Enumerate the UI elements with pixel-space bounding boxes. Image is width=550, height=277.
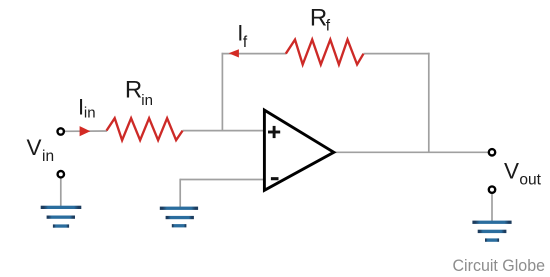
wire op-amp - input down to ground: [179, 179, 181, 208]
label Rf: [310, 4, 331, 34]
svg-text:in: in: [42, 148, 54, 165]
resistor Rf: [286, 40, 364, 65]
svg-text:in: in: [84, 104, 96, 121]
terminal Vout (top circle): [489, 149, 495, 155]
wire Vin lower terminal to ground: [60, 178, 62, 208]
terminal Vout ground side (lower circle): [489, 186, 495, 192]
label Rin: [125, 76, 153, 109]
wire feedback top horizontal: [222, 53, 286, 55]
wire node A: Rin to op-amp + input: [183, 130, 264, 132]
svg-text:R: R: [310, 4, 327, 31]
op-amp - pin marker: [271, 177, 279, 180]
current arrow If: [229, 49, 239, 57]
ground (output, right): [472, 221, 511, 242]
wire feedback right vertical: [428, 53, 430, 153]
svg-text:V: V: [27, 135, 42, 160]
ground (op-amp - input, middle): [160, 207, 198, 228]
svg-text:R: R: [125, 76, 142, 103]
terminal Vin (top circle): [58, 128, 64, 134]
resistor Rin: [107, 118, 183, 140]
wire Vin terminal to Rin: [64, 130, 107, 132]
wire Rf to right corner: [364, 53, 430, 55]
wire feedback left vertical (node A up): [221, 53, 223, 131]
wire op-amp - input horizontal: [180, 179, 263, 181]
op-amp + pin marker: [268, 126, 280, 138]
label If: [237, 21, 248, 51]
wire output: op-amp to Vout terminal: [333, 151, 488, 153]
svg-text:out: out: [519, 171, 541, 188]
label Iin: [78, 95, 96, 122]
svg-text:f: f: [243, 34, 248, 51]
svg-text:V: V: [504, 158, 519, 183]
svg-text:Circuit Globe: Circuit Globe: [453, 256, 546, 275]
current arrow Iin: [80, 126, 91, 136]
op-amp U1: [264, 110, 333, 190]
terminal Vin ground side (lower circle): [58, 171, 64, 177]
ground (input, left): [41, 206, 82, 228]
label Vin: [27, 135, 55, 165]
svg-text:in: in: [141, 92, 153, 109]
wire Vout lower terminal to ground: [491, 193, 493, 222]
label Vout: [504, 158, 542, 188]
svg-text:f: f: [326, 18, 331, 35]
